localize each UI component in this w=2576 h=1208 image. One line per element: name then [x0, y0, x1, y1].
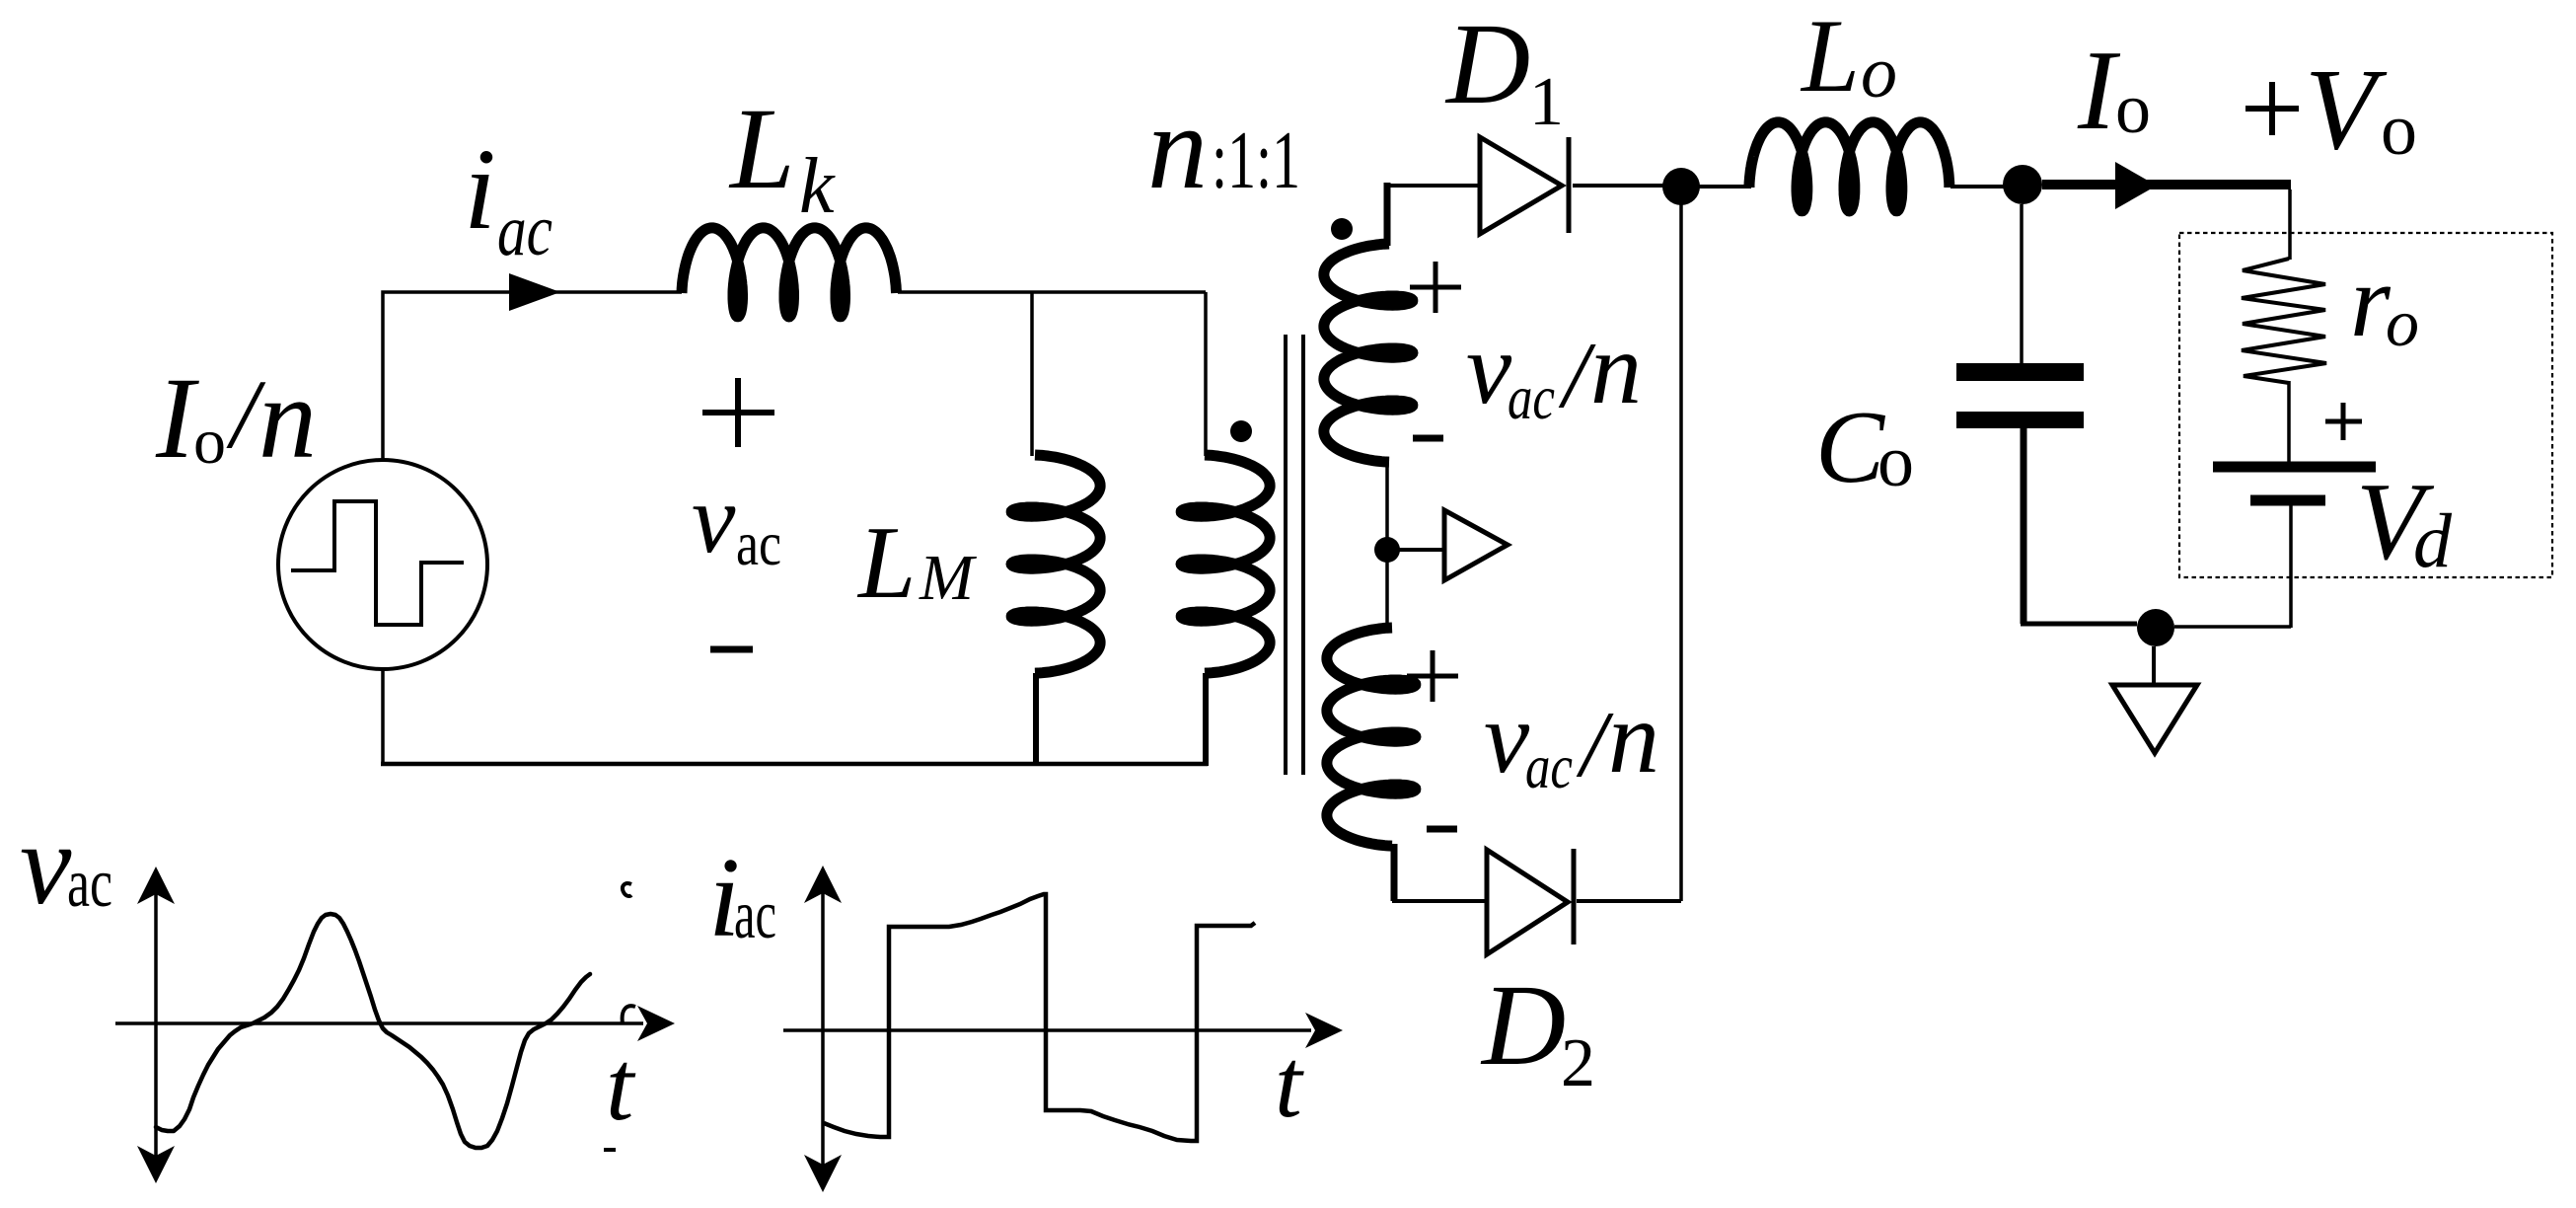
label - (sec top) [1413, 435, 1443, 442]
svg-text:o: o [1861, 33, 1897, 113]
svg-text:L: L [856, 504, 916, 620]
label + (sec bottom) [1407, 674, 1458, 679]
svg-text:o: o [1877, 421, 1914, 502]
svg-text:v: v [20, 799, 72, 929]
svg-text:t: t [606, 1030, 636, 1142]
diode D2 [1487, 850, 1568, 954]
wire D1 cathode [1573, 184, 1681, 188]
wire primary top feed [1204, 292, 1208, 456]
svg-text:n: n [258, 353, 317, 483]
wire tap to sec bottom [1385, 561, 1389, 630]
center tap node [1374, 537, 1400, 563]
wire bottom rail [381, 762, 1208, 767]
vac waveform curve [156, 914, 590, 1148]
svg-text:ac: ac [736, 508, 781, 578]
diode D1 [1480, 137, 1562, 234]
svg-text:o: o [193, 406, 226, 478]
wire right vertical [1679, 187, 1683, 901]
wire D1 anode [1387, 184, 1480, 188]
wire Lo to output node [1950, 185, 2005, 189]
svg-text:ac: ac [67, 846, 112, 922]
svg-text:v: v [1466, 312, 1512, 425]
wire sec bottom to D2 [1391, 844, 1398, 901]
secondary bottom winding [1327, 628, 1416, 846]
primary winding dot [1230, 420, 1252, 442]
svg-text:2: 2 [1561, 1025, 1595, 1101]
svg-text:L: L [728, 84, 795, 213]
svg-text:n: n [1590, 312, 1642, 425]
svg-text:v: v [1484, 681, 1530, 794]
output arrow Io [2115, 162, 2157, 209]
svg-text:ac: ac [1525, 731, 1573, 801]
wire Lk to transformer [898, 290, 1206, 294]
center tap wire [1398, 548, 1444, 552]
svg-text:d: d [2413, 497, 2453, 583]
node output junction [2003, 165, 2042, 204]
inductor LM [1011, 455, 1100, 673]
wire primary bottom [1203, 673, 1209, 766]
svg-text:o: o [2381, 90, 2417, 171]
svg-text:n: n [1608, 681, 1659, 794]
label + (sec top) [1410, 285, 1461, 290]
label + (battery) [2325, 419, 2362, 424]
svg-text:v: v [692, 464, 736, 573]
inductor Lo [1749, 122, 1950, 211]
stray dash mark [604, 1148, 616, 1152]
svg-text:D: D [1444, 0, 1530, 128]
svg-text:V: V [2305, 44, 2388, 174]
wire Vo down to ro [2288, 189, 2292, 260]
wire Co bottom [2021, 428, 2027, 624]
svg-text:M: M [919, 542, 978, 614]
svg-text:o: o [2115, 69, 2151, 148]
wire source to Lk [383, 292, 682, 460]
load box (dashed) [2179, 233, 2552, 577]
svg-text:L: L [1800, 0, 1860, 113]
plot2 horizontal axis [783, 1028, 1311, 1032]
svg-text:D: D [1480, 960, 1566, 1090]
svg-text:o: o [2386, 285, 2419, 360]
svg-text:ac: ac [497, 190, 552, 271]
stray apostrophe mark [623, 883, 631, 896]
wire ground to battery branch [2174, 625, 2291, 629]
wire D2 cathode [1577, 899, 1681, 903]
plot2 vertical axis [821, 884, 825, 1174]
svg-text::1:1: :1:1 [1212, 114, 1300, 206]
svg-text:i: i [464, 124, 496, 254]
plot1 vertical axis [154, 886, 158, 1168]
resistor ro [2242, 259, 2326, 383]
svg-text:C: C [1815, 389, 1886, 504]
label + (vac) [702, 410, 774, 415]
capacitor Co [1956, 363, 2084, 381]
transformer core [1284, 335, 1288, 775]
transformer primary winding [1181, 455, 1270, 673]
ground node [2137, 609, 2174, 646]
wire LM bottom [1033, 673, 1039, 766]
secondary top winding [1324, 244, 1413, 462]
label + Vo [2245, 106, 2299, 112]
node D1-Lo junction [1662, 168, 1700, 205]
svg-text:k: k [799, 143, 836, 230]
svg-text:ac: ac [734, 877, 776, 953]
plot1 horizontal axis [115, 1021, 643, 1025]
svg-text:1: 1 [1529, 64, 1564, 140]
wire source bottom [381, 668, 385, 764]
wire secondary top feed [1384, 183, 1391, 246]
battery Vd [2213, 462, 2376, 473]
inductor Lk [682, 228, 897, 317]
iac waveform curve [824, 894, 1255, 1141]
label - (vac) [710, 646, 753, 653]
wire node to Lo [1681, 185, 1751, 189]
wire battery bottom [2289, 505, 2293, 628]
secondary top dot [1331, 218, 1353, 240]
wire branch to LM [1030, 292, 1034, 456]
output wire thick [2042, 180, 2291, 189]
label - (sec bottom) [1427, 826, 1457, 833]
wire sec top to center tap [1385, 463, 1389, 539]
center tap arrow [1444, 510, 1508, 580]
svg-text:ac: ac [1508, 362, 1555, 432]
wire D2 anode [1392, 899, 1487, 903]
stray hook mark [623, 1006, 635, 1023]
wire ro to battery [2287, 381, 2291, 462]
AC current source Io/n [278, 460, 487, 669]
svg-text:t: t [1275, 1028, 1304, 1138]
wire node to Co [2020, 204, 2024, 363]
ground symbol [2152, 646, 2156, 687]
current arrow iac [509, 273, 560, 311]
svg-text:n: n [1147, 81, 1208, 214]
